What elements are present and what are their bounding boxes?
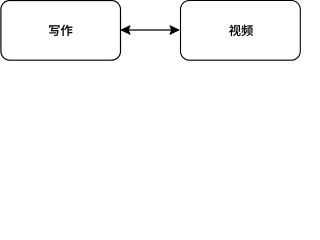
box: 写作 (writing) rounded rectangle [1, 1, 121, 61]
box: 视频 (video) rounded rectangle [181, 1, 301, 61]
label 视频 text (glyph outlines) [229, 25, 253, 36]
label 写作 text (glyph outlines) [49, 25, 72, 36]
arrowhead left (points to 写作 box) [121, 26, 130, 34]
background [0, 0, 301, 61]
wire: double-headed arrow shaft [128, 29, 173, 31]
arrowhead right (points to 视频 box) [170, 26, 179, 34]
